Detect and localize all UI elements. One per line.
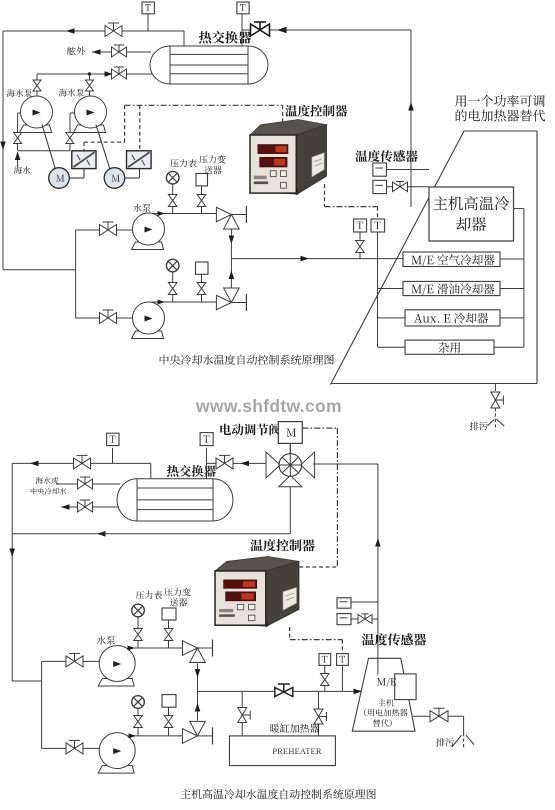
svg-text:PREHEATER: PREHEATER [272,747,321,756]
svg-text:www.shfdtw.com: www.shfdtw.com [195,396,342,416]
